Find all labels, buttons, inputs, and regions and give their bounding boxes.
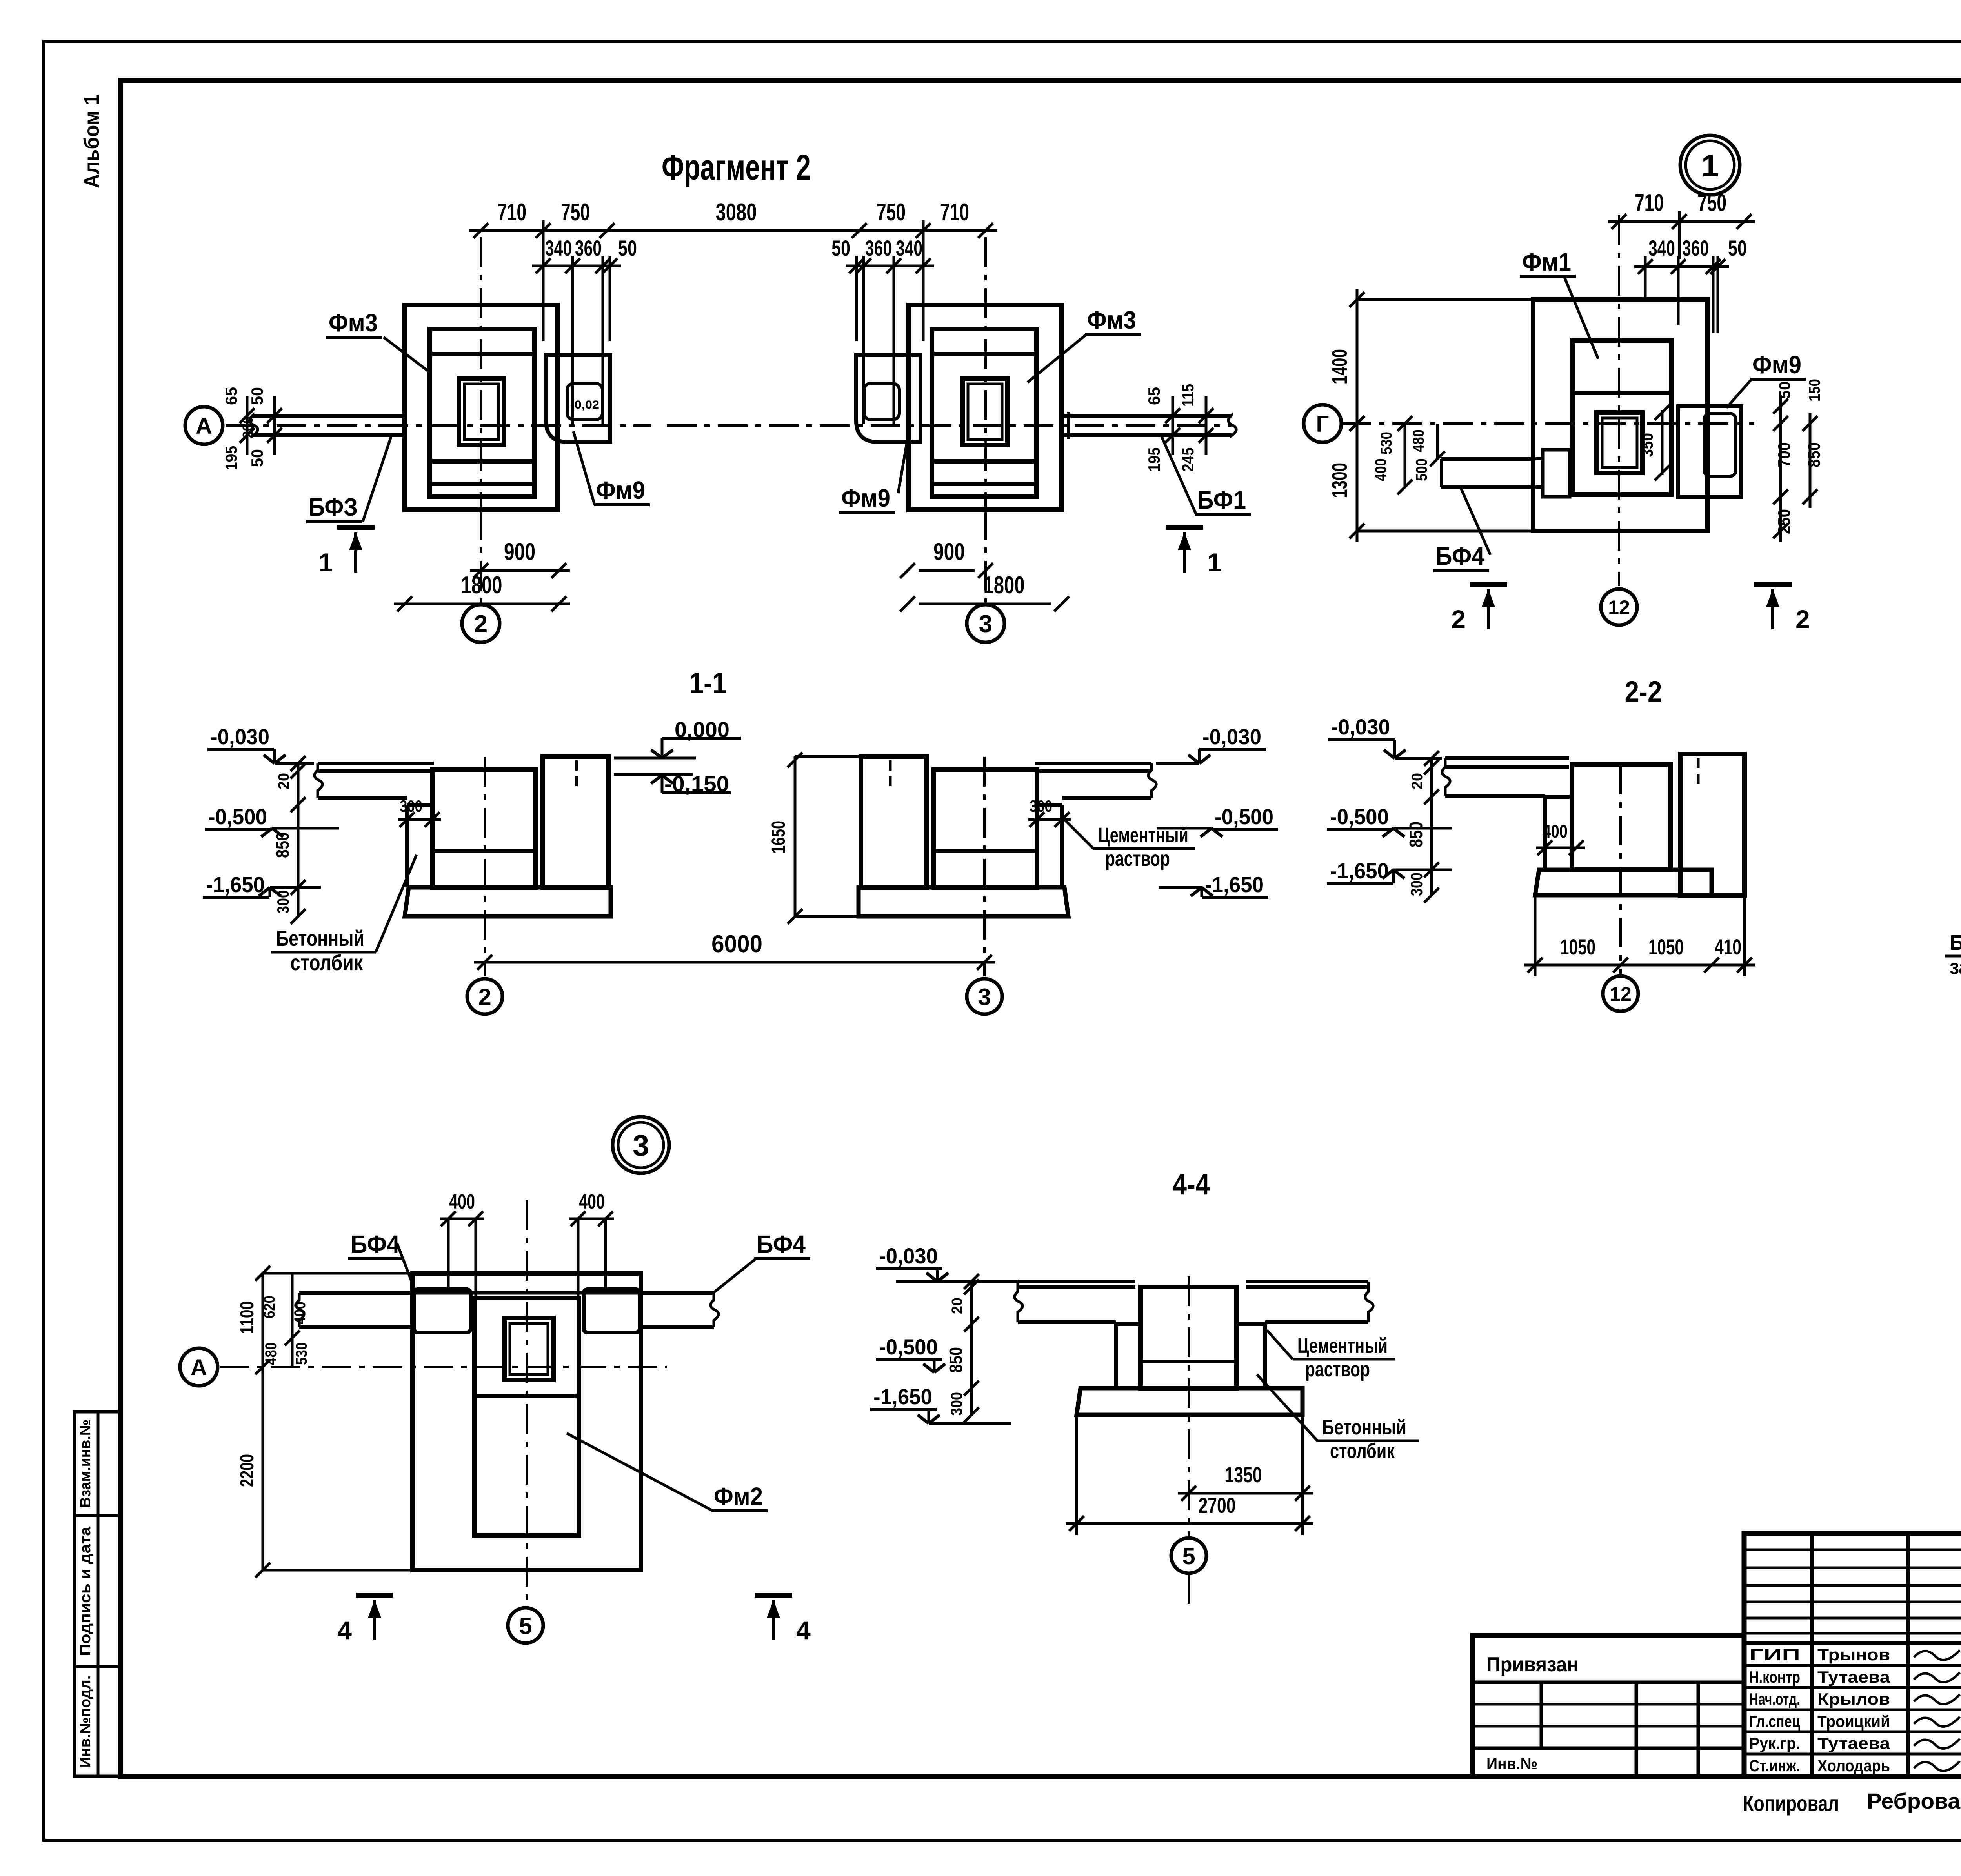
s11 left concrete strip bbox=[405, 805, 409, 887]
plan column 2: outer foundation outline bbox=[405, 305, 558, 510]
svg-text:1350: 1350 bbox=[1225, 1462, 1262, 1487]
detail3 top dims 400 bbox=[440, 1218, 484, 1220]
svg-text:Рук.гр.: Рук.гр. bbox=[1749, 1734, 1800, 1752]
svg-text:БФ4: БФ4 bbox=[1435, 542, 1484, 570]
plate Fm9 left of plan 3 bbox=[856, 355, 920, 442]
svg-text:Бетонный: Бетонный bbox=[1322, 1416, 1406, 1439]
svg-text:Привязан: Привязан bbox=[1486, 1653, 1579, 1676]
section mark 1 right bbox=[1166, 525, 1203, 530]
svg-text:1100: 1100 bbox=[237, 1301, 258, 1334]
svg-text:480: 480 bbox=[262, 1342, 280, 1365]
svg-text:-1,650: -1,650 bbox=[873, 1384, 932, 1409]
s44 dim chain bbox=[970, 1282, 973, 1415]
s11 axis 3 bbox=[983, 757, 986, 976]
svg-text:-0,030: -0,030 bbox=[211, 724, 269, 749]
s22 bottom dims bbox=[1524, 964, 1755, 967]
detail1 right plate Fm9 bbox=[1678, 406, 1741, 497]
svg-text:Фм9: Фм9 bbox=[596, 476, 645, 504]
svg-text:750: 750 bbox=[877, 199, 906, 226]
svg-text:-0,02: -0,02 bbox=[570, 398, 599, 411]
svg-text:Холодарь: Холодарь bbox=[1817, 1756, 1890, 1775]
svg-text:столбик: столбик bbox=[1330, 1439, 1395, 1463]
svg-text:1-1: 1-1 bbox=[689, 667, 727, 700]
svg-text:50: 50 bbox=[248, 449, 266, 467]
privyazan table bbox=[1473, 1635, 1744, 1776]
svg-text:620: 620 bbox=[261, 1296, 278, 1318]
svg-text:20: 20 bbox=[1409, 773, 1426, 789]
svg-text:900: 900 bbox=[933, 538, 965, 565]
svg-text:-0,500: -0,500 bbox=[879, 1334, 938, 1359]
svg-text:Н.контр: Н.контр bbox=[1749, 1668, 1800, 1686]
main row line bbox=[1744, 1641, 1961, 1645]
detail 1 circle bbox=[1680, 135, 1740, 195]
s11 left column block bbox=[432, 770, 536, 887]
detail3 beams BF4 bbox=[299, 1291, 414, 1295]
detail 3 circle bbox=[613, 1117, 669, 1173]
svg-text:400: 400 bbox=[1372, 458, 1390, 481]
svg-text:850: 850 bbox=[272, 832, 293, 858]
s22 concrete strip bbox=[1543, 797, 1547, 870]
svg-text:1800: 1800 bbox=[984, 572, 1025, 599]
detail1 outer foundation bbox=[1533, 300, 1708, 531]
left small dims plan2 bbox=[246, 396, 249, 455]
svg-text:710: 710 bbox=[940, 199, 969, 226]
svg-text:Ст.инж.: Ст.инж. bbox=[1749, 1756, 1800, 1775]
svg-text:раствор: раствор bbox=[1305, 1358, 1370, 1381]
svg-text:1300: 1300 bbox=[1328, 463, 1352, 498]
dims below plan 2 bbox=[470, 569, 570, 572]
s22 wall right bbox=[1680, 754, 1745, 895]
svg-text:50: 50 bbox=[618, 236, 637, 260]
svg-text:5: 5 bbox=[1182, 1543, 1195, 1569]
svg-text:Троицкий: Троицкий bbox=[1817, 1712, 1890, 1731]
detail1 column section bbox=[1597, 413, 1643, 473]
s11 left dim chain bbox=[297, 763, 300, 916]
svg-text:заполнителе М200: заполнителе М200 bbox=[1950, 955, 1961, 979]
s22 dim chain bbox=[1430, 758, 1433, 895]
title block outer bbox=[1744, 1533, 1961, 1776]
section mark 1 left bbox=[337, 525, 375, 530]
svg-text:Фм9: Фм9 bbox=[841, 484, 890, 512]
axis line between plans bbox=[667, 424, 1232, 427]
axis circle A bbox=[185, 407, 223, 444]
svg-text:Альбом 1: Альбом 1 bbox=[80, 94, 104, 188]
detail1 350 dim bbox=[1661, 410, 1664, 475]
svg-text:300: 300 bbox=[947, 1392, 966, 1416]
plan column 2: column cross-section bbox=[459, 378, 504, 445]
svg-text:150: 150 bbox=[1806, 379, 1823, 402]
svg-text:Гл.спец: Гл.спец bbox=[1749, 1712, 1800, 1731]
svg-text:300: 300 bbox=[400, 797, 422, 815]
svg-text:Копировал: Копировал bbox=[1743, 1791, 1839, 1816]
svg-text:400: 400 bbox=[1543, 821, 1568, 842]
s11 axis 2 bbox=[484, 757, 486, 976]
svg-text:12: 12 bbox=[1608, 596, 1630, 618]
svg-text:-0,030: -0,030 bbox=[1331, 714, 1390, 739]
change table columns bbox=[1810, 1533, 1814, 1776]
svg-text:3: 3 bbox=[633, 1129, 649, 1162]
svg-text:245: 245 bbox=[1179, 447, 1197, 472]
s11 left pad bbox=[405, 887, 611, 916]
svg-text:480: 480 bbox=[1410, 429, 1427, 452]
s44 left slab bbox=[1018, 1280, 1135, 1283]
svg-text:2: 2 bbox=[1451, 605, 1466, 634]
s44 right slab bbox=[1246, 1280, 1368, 1283]
svg-text:300: 300 bbox=[274, 890, 292, 914]
svg-text:1: 1 bbox=[1207, 548, 1222, 577]
svg-text:50: 50 bbox=[1728, 236, 1747, 260]
svg-text:Взам.инв.№: Взам.инв.№ bbox=[77, 1420, 94, 1508]
svg-text:710: 710 bbox=[497, 199, 526, 226]
svg-text:2700: 2700 bbox=[1199, 1493, 1236, 1518]
svg-text:-0,500: -0,500 bbox=[1215, 804, 1273, 829]
detail3 left dims bbox=[262, 1273, 264, 1570]
svg-text:Г: Г bbox=[1316, 411, 1329, 437]
svg-text:Фм9: Фм9 bbox=[1752, 351, 1801, 379]
plan column 3: outer outline bbox=[909, 305, 1062, 510]
s11 left unit floor slab bbox=[318, 762, 434, 765]
plan column 3: column cross-section bbox=[962, 378, 1008, 445]
svg-text:530: 530 bbox=[1378, 432, 1395, 454]
svg-text:300: 300 bbox=[1030, 797, 1052, 815]
detail3 section marks 4 bbox=[356, 1593, 393, 1598]
svg-text:1: 1 bbox=[318, 548, 333, 577]
svg-text:500: 500 bbox=[1413, 458, 1430, 481]
detail1 axes bbox=[1341, 422, 1754, 425]
svg-text:12: 12 bbox=[1610, 983, 1632, 1005]
detail1 right dims bbox=[1779, 395, 1782, 542]
detail3 beam seats bbox=[414, 1289, 471, 1332]
svg-text:340: 340 bbox=[545, 236, 572, 260]
detail3 inner slab Fm2 bbox=[475, 1298, 579, 1536]
svg-text:2: 2 bbox=[474, 611, 488, 638]
detail3 axes bbox=[220, 1366, 667, 1368]
s22 pad bbox=[1535, 870, 1712, 895]
svg-text:А: А bbox=[191, 1355, 207, 1380]
svg-text:115: 115 bbox=[1179, 384, 1197, 407]
detail1 inner slab Fm1 bbox=[1572, 340, 1671, 494]
right small dims plan3 bbox=[1172, 396, 1174, 455]
svg-text:Фм3: Фм3 bbox=[1087, 306, 1136, 334]
svg-text:340: 340 bbox=[896, 236, 922, 260]
svg-text:50: 50 bbox=[1776, 381, 1794, 399]
svg-text:3080: 3080 bbox=[716, 199, 757, 226]
svg-text:2: 2 bbox=[478, 984, 491, 1010]
detail3 column section bbox=[504, 1318, 553, 1380]
s44 axis 5 bbox=[1188, 1276, 1190, 1536]
s44 bottom dims bbox=[1178, 1492, 1313, 1495]
svg-text:6000: 6000 bbox=[711, 931, 762, 958]
svg-text:БФ4: БФ4 bbox=[757, 1230, 806, 1258]
svg-text:200: 200 bbox=[240, 416, 256, 438]
svg-text:А: А bbox=[196, 413, 212, 439]
svg-text:Крылов: Крылов bbox=[1817, 1690, 1890, 1708]
svg-text:-1,650: -1,650 bbox=[206, 872, 265, 897]
svg-text:4: 4 bbox=[796, 1616, 811, 1645]
svg-text:Реброва: Реброва bbox=[1867, 1789, 1961, 1813]
signature rows bbox=[1744, 1664, 1961, 1667]
svg-text:700: 700 bbox=[1775, 442, 1794, 467]
svg-text:1: 1 bbox=[1701, 148, 1719, 183]
svg-text:Фм1: Фм1 bbox=[1522, 248, 1571, 276]
svg-text:2200: 2200 bbox=[237, 1454, 258, 1487]
s44 side strips bbox=[1114, 1324, 1118, 1388]
svg-text:Инв.№: Инв.№ bbox=[1486, 1754, 1537, 1773]
detail3 outer outline bbox=[413, 1273, 641, 1570]
svg-text:БФ4: БФ4 bbox=[351, 1230, 400, 1258]
svg-text:Фм2: Фм2 bbox=[714, 1482, 763, 1511]
s22 floor slab bbox=[1445, 756, 1569, 760]
svg-text:Бетонный: Бетонный bbox=[276, 926, 364, 951]
svg-text:4-4: 4-4 bbox=[1173, 1168, 1210, 1201]
svg-text:50: 50 bbox=[831, 236, 850, 260]
beam BF1 right of plan 3 bbox=[1062, 414, 1232, 418]
svg-text:3: 3 bbox=[979, 611, 992, 638]
axis circle 3 below plan 3 bbox=[984, 510, 987, 603]
svg-text:400: 400 bbox=[291, 1302, 309, 1324]
svg-text:4: 4 bbox=[337, 1616, 352, 1645]
change table rows bbox=[1744, 1549, 1961, 1551]
svg-text:850: 850 bbox=[1805, 442, 1824, 467]
svg-text:1050: 1050 bbox=[1648, 934, 1684, 959]
svg-text:БФ1: БФ1 bbox=[1197, 486, 1246, 514]
svg-text:Подпись и дата: Подпись и дата bbox=[77, 1526, 94, 1656]
s11 1650 dim bbox=[794, 756, 797, 916]
svg-text:-1,650: -1,650 bbox=[1330, 858, 1389, 883]
svg-text:750: 750 bbox=[561, 199, 590, 226]
svg-text:850: 850 bbox=[946, 1347, 966, 1373]
svg-text:-0,500: -0,500 bbox=[1330, 804, 1389, 829]
plan column 3: slab Fm3 bbox=[932, 329, 1037, 496]
svg-text:360: 360 bbox=[575, 236, 602, 260]
detail1 left beam BF4 bbox=[1441, 457, 1533, 461]
svg-text:400: 400 bbox=[579, 1191, 605, 1213]
s11 right unit (mirrored) bbox=[1035, 762, 1151, 765]
svg-text:50: 50 bbox=[248, 387, 266, 405]
s22 axis 12 bbox=[1619, 765, 1622, 974]
svg-text:65: 65 bbox=[1145, 387, 1163, 405]
svg-text:65: 65 bbox=[222, 387, 240, 405]
svg-text:750: 750 bbox=[1697, 189, 1726, 216]
dims above plan 3 bbox=[852, 223, 867, 238]
svg-text:Тутаева: Тутаева bbox=[1817, 1734, 1890, 1752]
svg-text:400: 400 bbox=[449, 1191, 475, 1213]
detail1 section marks 2 bbox=[1470, 582, 1507, 587]
svg-text:1400: 1400 bbox=[1328, 349, 1352, 384]
svg-text:столбик: столбик bbox=[290, 950, 363, 975]
svg-text:900: 900 bbox=[504, 538, 535, 565]
svg-text:340: 340 bbox=[1648, 236, 1675, 260]
svg-text:Трынов: Трынов bbox=[1817, 1645, 1890, 1664]
svg-text:350: 350 bbox=[1638, 433, 1656, 457]
svg-text:850: 850 bbox=[1406, 822, 1426, 847]
s11 6000 dim bbox=[474, 961, 995, 964]
svg-text:Цементный: Цементный bbox=[1297, 1334, 1388, 1358]
svg-text:2-2: 2-2 bbox=[1625, 675, 1662, 709]
svg-text:20: 20 bbox=[276, 773, 292, 789]
svg-text:Тутаева: Тутаева bbox=[1817, 1668, 1890, 1686]
svg-text:360: 360 bbox=[865, 236, 892, 260]
svg-text:Фрагмент 2: Фрагмент 2 bbox=[662, 147, 811, 187]
plan column 2: axis A horizontal bbox=[226, 424, 651, 427]
svg-text:Нач.отд.: Нач.отд. bbox=[1749, 1690, 1800, 1708]
plan column 2: slab Fm3 bbox=[430, 329, 535, 496]
svg-text:Бетон на мелком: Бетон на мелком bbox=[1950, 931, 1961, 954]
svg-text:5: 5 bbox=[519, 1613, 532, 1639]
svg-text:-0,500: -0,500 bbox=[208, 804, 267, 829]
dims above plan 2 bbox=[469, 229, 997, 232]
svg-text:1650: 1650 bbox=[768, 821, 789, 854]
beam BF3 bbox=[253, 414, 405, 418]
s44 column bbox=[1141, 1287, 1237, 1388]
svg-text:360: 360 bbox=[1682, 236, 1709, 260]
svg-text:300: 300 bbox=[1407, 873, 1426, 896]
svg-text:ГИП: ГИП bbox=[1749, 1645, 1800, 1664]
detail1 left dims bbox=[1356, 289, 1359, 542]
detail1 top dims bbox=[1608, 220, 1755, 223]
svg-text:3: 3 bbox=[978, 984, 991, 1010]
svg-text:195: 195 bbox=[222, 446, 240, 470]
s11 left wall bbox=[543, 756, 608, 887]
s44 pad bbox=[1077, 1388, 1302, 1415]
svg-text:410: 410 bbox=[1715, 934, 1741, 959]
svg-text:-0,030: -0,030 bbox=[1202, 724, 1261, 749]
svg-text:2: 2 bbox=[1795, 605, 1810, 634]
svg-text:Фм3: Фм3 bbox=[329, 309, 378, 337]
svg-text:250: 250 bbox=[1775, 509, 1794, 534]
plate Fm9 right of plan 2 bbox=[546, 355, 610, 442]
svg-text:раствор: раствор bbox=[1105, 847, 1170, 871]
s22 column bbox=[1572, 764, 1670, 870]
svg-text:20: 20 bbox=[949, 1298, 966, 1314]
svg-text:БФЗ: БФЗ bbox=[309, 493, 358, 521]
axis circle 2 below plan 2 bbox=[480, 510, 482, 603]
svg-text:1050: 1050 bbox=[1560, 934, 1595, 959]
svg-text:710: 710 bbox=[1635, 189, 1664, 216]
svg-text:-0,030: -0,030 bbox=[879, 1243, 938, 1268]
svg-text:530: 530 bbox=[293, 1342, 310, 1365]
svg-text:195: 195 bbox=[1145, 447, 1163, 472]
svg-text:-1,650: -1,650 bbox=[1205, 872, 1264, 897]
left stamp boxes bbox=[75, 1412, 120, 1776]
svg-text:Инв.№подл.: Инв.№подл. bbox=[77, 1676, 94, 1768]
dims below plan 3 bbox=[919, 569, 975, 572]
